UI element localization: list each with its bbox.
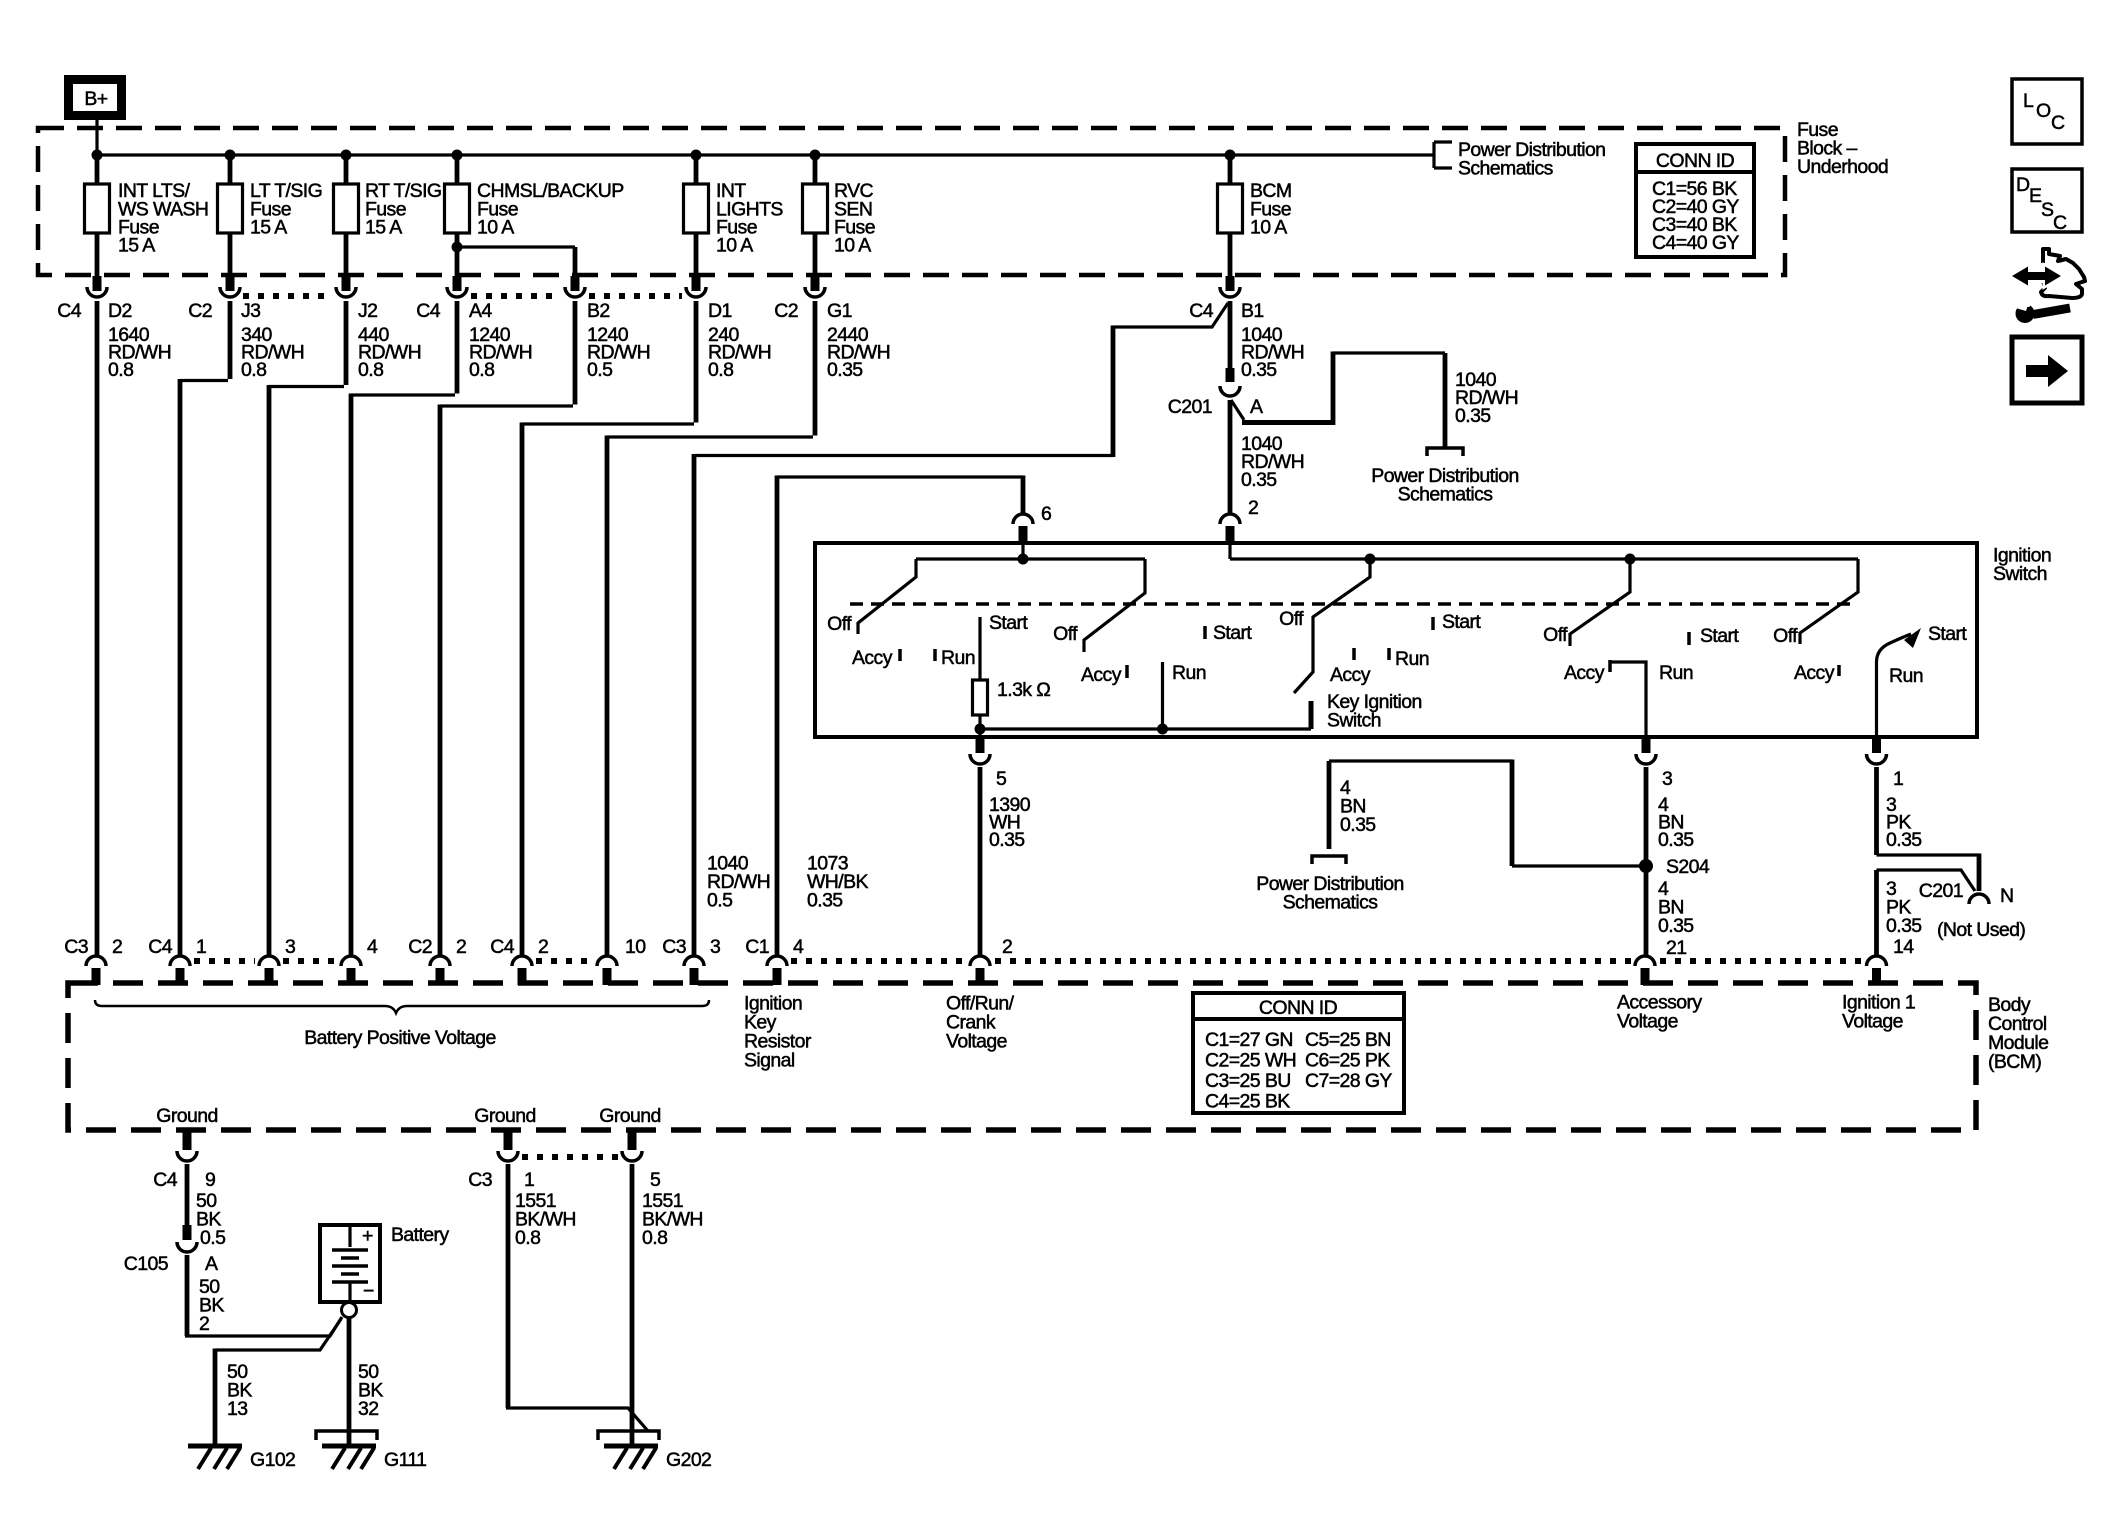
B+ power symbol: [64, 75, 126, 120]
svg-text:Voltage: Voltage: [1842, 1011, 1903, 1033]
node bus-A4: [452, 150, 463, 161]
wire ground 50 BK 0.5: [185, 1164, 190, 1225]
svg-text:0.35: 0.35: [1241, 469, 1277, 491]
wire pin5 to BCM pin2 (1390 WH): [978, 767, 983, 955]
wire G102 50 BK 13: [215, 1319, 341, 1350]
node wiper3-bus: [1365, 554, 1376, 565]
svg-text:C3=25 BU: C3=25 BU: [1205, 1070, 1291, 1092]
switch 3 accy contact: [1352, 648, 1356, 660]
CONN ID table (BCM): [1193, 993, 1404, 1113]
svg-text:0.35: 0.35: [827, 359, 863, 381]
wire S204 branch to power distribution tap: [1329, 761, 1646, 866]
node bus-J2: [341, 150, 352, 161]
icon hand with double arrow and wrench: [2012, 249, 2085, 323]
svg-text:0.8: 0.8: [708, 359, 733, 381]
svg-text:0.35: 0.35: [989, 829, 1025, 851]
label 4 BN 0.35 (tap branch): [1340, 777, 1376, 836]
svg-text:Off: Off: [1543, 624, 1568, 646]
ground G202: [598, 1431, 711, 1471]
svg-text:0.8: 0.8: [108, 359, 133, 381]
svg-text:C201: C201: [1919, 880, 1963, 902]
svg-text:3: 3: [710, 936, 720, 958]
svg-text:C2: C2: [774, 300, 798, 322]
wire label 240 RD/WH 0.8: [708, 324, 771, 381]
wire label 50 BK 2: [199, 1276, 224, 1335]
svg-text:0.35: 0.35: [1455, 405, 1491, 427]
svg-text:J3: J3: [241, 300, 260, 322]
svg-text:10 A: 10 A: [716, 235, 753, 257]
svg-text:Battery Positive Voltage: Battery Positive Voltage: [304, 1027, 496, 1049]
BCM ground pin 5: [622, 1132, 661, 1191]
svg-text:Start: Start: [1700, 625, 1739, 647]
wire label 1040 RD/WH 0.35 (C201 A): [1241, 433, 1304, 491]
wire label 50 BK 0.5: [196, 1190, 226, 1249]
node resistor-bus: [975, 724, 986, 735]
svg-text:CONN ID: CONN ID: [1656, 150, 1735, 172]
wire label 1390 WH 0.35: [989, 794, 1031, 851]
svg-text:21: 21: [1666, 937, 1687, 959]
svg-text:D: D: [2016, 174, 2030, 196]
svg-text:Accy: Accy: [852, 647, 893, 669]
resistor 1.3k: [973, 680, 988, 715]
connector pin 3 (ignition bottom): [1636, 735, 1672, 790]
svg-text:13: 13: [227, 1398, 248, 1420]
svg-text:C4=25 BK: C4=25 BK: [1205, 1091, 1290, 1113]
BCM pin 2 (off/run/crank): [970, 936, 1012, 985]
icon LOC: [2012, 79, 2082, 144]
svg-text:0.8: 0.8: [358, 359, 383, 381]
switch wiper 3 (off, linked to key switch): [1294, 559, 1370, 693]
BCM pin 4 C1: [745, 936, 804, 985]
connector dotted line C4 pins 1-3-4: [194, 958, 337, 964]
wire J2 to BCM pin3: [269, 301, 346, 955]
svg-text:C1=27 GN: C1=27 GN: [1205, 1029, 1293, 1051]
connector pin J2: [336, 276, 377, 322]
connector pin B2: [565, 276, 610, 322]
connector pin 2 (ignition): [1220, 497, 1258, 545]
svg-text:0.8: 0.8: [642, 1227, 667, 1249]
connector C4 pin B1: [1189, 276, 1263, 322]
svg-text:A4: A4: [469, 300, 492, 322]
svg-text:Off: Off: [1773, 625, 1798, 647]
svg-text:2: 2: [112, 936, 122, 958]
switch 1 labels: [827, 612, 1028, 669]
wire label 4 BN 0.35 (upper): [1658, 794, 1694, 851]
svg-text:C3: C3: [468, 1169, 492, 1191]
BCM pin 21: [1635, 937, 1687, 985]
ground G111: [316, 1431, 426, 1471]
svg-text:Underhood: Underhood: [1797, 156, 1888, 178]
node wiper4-bus: [1625, 554, 1636, 565]
wire B1 branch 1040 RD/WH 0.5 to BCM pin3 C3: [694, 303, 1228, 456]
svg-text:0.35: 0.35: [1886, 829, 1922, 851]
svg-text:C2=25 WH: C2=25 WH: [1205, 1050, 1296, 1072]
svg-text:15 A: 15 A: [365, 217, 402, 239]
svg-text:Accy: Accy: [1081, 664, 1122, 686]
connector C4 pin D2: [57, 276, 131, 322]
svg-text:1: 1: [524, 1169, 534, 1191]
svg-text:15 A: 15 A: [118, 235, 155, 257]
brace battery positive voltage: [95, 1000, 709, 1013]
switch 2 start contact: [1203, 626, 1207, 639]
switch 3 run contact: [1387, 648, 1391, 660]
svg-text:Signal: Signal: [744, 1050, 795, 1072]
BCM pin 4: [341, 936, 378, 985]
wire A4 to BCM pin4: [351, 301, 457, 955]
svg-text:B1: B1: [1241, 300, 1264, 322]
wire C201 A to ignition pin2: [1228, 400, 1233, 513]
label power distribution schematics (mid): [1371, 465, 1518, 506]
wire G111 50 BK 32: [347, 1318, 352, 1446]
BCM pin 2 C2: [408, 936, 466, 985]
switch 2 labels: [1053, 622, 1252, 686]
CONN ID table (fuse block): [1636, 144, 1754, 257]
BCM pin 14: [1867, 936, 1915, 985]
svg-text:14: 14: [1893, 936, 1914, 958]
icon arrow box: [2012, 337, 2082, 403]
svg-text:2: 2: [199, 1313, 209, 1335]
svg-text:Voltage: Voltage: [946, 1031, 1007, 1053]
fuse RVC SEN 10A: [803, 155, 875, 276]
svg-text:C1: C1: [745, 936, 769, 958]
dashed gang line: [850, 602, 1855, 606]
connector C201 N (not used): [1919, 880, 2026, 941]
wire CHMSL fuse branch to B2: [457, 245, 575, 248]
BCM pin 1 C4: [148, 936, 206, 985]
switch 5 run wire to start arrow: [1877, 634, 1912, 737]
svg-text:C: C: [2053, 212, 2067, 234]
ignition bottom bus wire: [980, 727, 1311, 730]
switch wiper 4 (off): [1570, 559, 1630, 646]
BCM dashed box: [68, 983, 1976, 1130]
fuse RT T/SIG 15A: [334, 155, 442, 276]
svg-text:10 A: 10 A: [477, 217, 514, 239]
node CHMSL branch: [452, 242, 463, 253]
svg-text:Off: Off: [1279, 608, 1304, 630]
connector C201 pin A: [1168, 368, 1263, 418]
svg-text:1: 1: [1893, 768, 1903, 790]
svg-text:B2: B2: [587, 300, 610, 322]
svg-text:9: 9: [205, 1169, 215, 1191]
svg-text:6: 6: [1041, 503, 1051, 525]
connector pin D1: [686, 276, 732, 322]
switch wiper 1 (off): [858, 559, 916, 634]
svg-text:G1: G1: [827, 300, 852, 322]
svg-text:0.8: 0.8: [515, 1227, 540, 1249]
svg-text:C4: C4: [153, 1169, 177, 1191]
label body control module: [1988, 994, 2048, 1073]
connector dotted line A4-B2-D1: [471, 293, 682, 299]
wire label 1073 WH/BK 0.35: [807, 853, 869, 912]
wire 50 BK 2 to battery negative: [185, 1255, 190, 1336]
svg-text:1.3k Ω: 1.3k Ω: [997, 679, 1050, 701]
label power distribution schematics (bottom): [1256, 873, 1403, 914]
connector pin 1 (ignition bottom): [1867, 735, 1904, 790]
switch 3 labels: [1279, 608, 1481, 686]
switch 1 run contact: [933, 649, 937, 661]
svg-text:0.8: 0.8: [469, 359, 494, 381]
node bus-D2: [92, 150, 103, 161]
label off/run/crank voltage: [946, 993, 1015, 1053]
svg-text:0.5: 0.5: [587, 359, 613, 381]
wire label 340 RD/WH 0.8: [241, 324, 304, 381]
svg-text:G102: G102: [250, 1449, 295, 1471]
switch 5 accy contact: [1837, 665, 1841, 676]
svg-text:Start: Start: [989, 612, 1028, 634]
switch 3 start contact: [1431, 617, 1435, 630]
tap symbol power distribution (bottom): [1312, 856, 1346, 864]
battery: [320, 1224, 449, 1302]
key ignition switch contact: [1309, 701, 1314, 729]
fuse INT LTS/WS WASH 15A: [85, 155, 209, 276]
svg-text:C7=28 GY: C7=28 GY: [1305, 1070, 1392, 1092]
svg-text:Accy: Accy: [1564, 662, 1605, 684]
svg-text:0.35: 0.35: [1658, 915, 1694, 937]
BCM ground pin 1 C3: [468, 1132, 534, 1191]
wire D2 to BCM pin2 C3: [95, 301, 100, 955]
ignition switch box: [815, 543, 1977, 737]
svg-text:C4: C4: [57, 300, 81, 322]
wire label 50 BK 32: [358, 1361, 383, 1420]
wire label 440 RD/WH 0.8: [358, 324, 421, 381]
svg-text:(Not Used): (Not Used): [1937, 919, 2025, 941]
svg-text:Battery: Battery: [391, 1224, 449, 1246]
svg-text:CONN ID: CONN ID: [1259, 997, 1338, 1019]
connector C4 pin A4: [416, 276, 492, 322]
connector C2 pin G1: [774, 276, 852, 322]
svg-text:B+: B+: [84, 88, 107, 110]
switch 1 accy contact: [898, 649, 902, 661]
svg-text:0.5: 0.5: [200, 1227, 226, 1249]
svg-text:2: 2: [1248, 497, 1258, 519]
svg-text:Ground: Ground: [599, 1105, 660, 1127]
connector pin 5 (ignition bottom): [970, 735, 1007, 790]
svg-text:L: L: [2023, 90, 2034, 112]
connector dotted line ground pins: [522, 1154, 618, 1160]
svg-text:Schematics: Schematics: [1458, 158, 1554, 180]
wire B1 down to C201: [1228, 301, 1233, 368]
svg-text:C2: C2: [408, 936, 432, 958]
label fuse block underhood: [1797, 119, 1888, 178]
svg-text:32: 32: [358, 1398, 379, 1420]
switch wiper 2 (off): [1084, 559, 1145, 652]
wire label 1551 BK/WH 0.8 (right): [642, 1190, 703, 1249]
fuse CHMSL/BACKUP 10A: [445, 155, 624, 276]
wire label 1040 RD/WH 0.35 (B1): [1241, 324, 1304, 381]
node bus-J3: [225, 150, 236, 161]
svg-text:C3: C3: [64, 936, 88, 958]
svg-text:C201: C201: [1168, 396, 1212, 418]
node bus-B1: [1225, 150, 1236, 161]
wire C201 A branch to power distribution tap: [1231, 353, 1445, 420]
svg-text:−: −: [363, 1280, 374, 1302]
BCM pin 3 C3: [662, 936, 720, 985]
switch 5 labels: [1773, 623, 1967, 687]
svg-text:3: 3: [1662, 768, 1672, 790]
svg-text:5: 5: [650, 1169, 661, 1191]
svg-text:Run: Run: [1659, 662, 1693, 684]
svg-text:Start: Start: [1442, 611, 1481, 633]
svg-text:C4: C4: [148, 936, 172, 958]
battery negative terminal: [342, 1303, 357, 1318]
connector dotted line J3-J2: [243, 293, 333, 299]
svg-text:10: 10: [625, 936, 646, 958]
connector C2 pin J3: [188, 276, 260, 322]
wire pin2 bus: [1230, 544, 1858, 559]
svg-text:C: C: [2051, 112, 2065, 134]
label 1040 RD/WH 0.35 (tap): [1455, 369, 1518, 427]
svg-text:C4: C4: [416, 300, 440, 322]
label ignition switch: [1993, 545, 2051, 586]
svg-text:S204: S204: [1666, 856, 1710, 878]
wire B+ to bus: [95, 120, 98, 155]
svg-text:15 A: 15 A: [250, 217, 287, 239]
label ignition 1 voltage: [1842, 992, 1915, 1033]
svg-text:Schematics: Schematics: [1283, 892, 1379, 914]
wire G1 to BCM pin10: [607, 301, 815, 955]
connector dotted line C4 pins 2-10: [536, 958, 593, 964]
svg-text:G111: G111: [384, 1449, 426, 1471]
svg-text:Run: Run: [1889, 665, 1923, 687]
svg-text:D1: D1: [708, 300, 732, 322]
wire label 50 BK 13: [227, 1361, 252, 1420]
node bus-D1: [691, 150, 702, 161]
fuse LT T/SIG 15A: [218, 155, 323, 276]
wire label 3 PK 0.35 (lower): [1886, 878, 1922, 937]
tag power distribution schematics (bus continuation): [1434, 139, 1605, 180]
svg-text:D2: D2: [108, 300, 132, 322]
label key ignition switch: [1327, 691, 1422, 732]
svg-text:+: +: [362, 1225, 373, 1247]
svg-text:Accy: Accy: [1794, 662, 1835, 684]
splice S204: [1639, 859, 1653, 873]
svg-text:Accy: Accy: [1330, 664, 1371, 686]
label ignition key resistor signal: [744, 993, 812, 1072]
wire label 1240 RD/WH 0.8: [469, 324, 532, 381]
switch 4 labels: [1543, 624, 1739, 684]
node bus-G1: [810, 150, 821, 161]
connector pin 6 (ignition): [1013, 503, 1051, 545]
svg-text:C4=40 GY: C4=40 GY: [1652, 232, 1739, 254]
svg-text:Off: Off: [1053, 623, 1078, 645]
BCM pin 3: [259, 936, 295, 985]
fuse BCM 10A: [1218, 155, 1292, 276]
svg-text:4: 4: [793, 936, 804, 958]
BCM pin 2 C3: [64, 936, 122, 985]
wire resistor to pin5: [978, 715, 981, 737]
svg-text:10 A: 10 A: [1250, 217, 1287, 239]
svg-text:2: 2: [538, 936, 548, 958]
node run2-bus: [1157, 724, 1168, 735]
switch 5 arrowhead: [1904, 628, 1921, 648]
svg-text:C3: C3: [662, 936, 686, 958]
svg-text:C2: C2: [188, 300, 212, 322]
svg-text:2: 2: [456, 936, 466, 958]
svg-text:2: 2: [1002, 936, 1012, 958]
wire label 4 BN 0.35 (lower): [1658, 878, 1694, 937]
svg-text:Ground: Ground: [474, 1105, 535, 1127]
wire 1551 BK/WH 0.8 (pin1) to G202: [506, 1164, 511, 1408]
svg-text:10 A: 10 A: [834, 235, 871, 257]
wire D1 to BCM pin2 C4: [522, 301, 696, 955]
svg-text:N: N: [2000, 885, 2013, 907]
svg-text:0.35: 0.35: [1886, 915, 1922, 937]
wire 1073 WH/BK BCM pin4 C1 to ignition pin6: [777, 476, 1023, 956]
svg-text:Voltage: Voltage: [1617, 1011, 1678, 1033]
wire label 1040 RD/WH 0.5: [707, 853, 770, 912]
svg-text:Switch: Switch: [1993, 563, 2047, 585]
svg-text:Start: Start: [1213, 622, 1252, 644]
switch 2 accy contact: [1125, 665, 1129, 678]
svg-text:G202: G202: [666, 1449, 711, 1471]
svg-text:1: 1: [196, 936, 206, 958]
bus wire (battery positive feed): [97, 153, 1434, 156]
svg-text:Ground: Ground: [156, 1105, 217, 1127]
wire pin1 to C201 N (3 PK): [1877, 767, 1980, 891]
svg-text:J2: J2: [358, 300, 377, 322]
svg-text:0.35: 0.35: [1340, 814, 1376, 836]
wire accy4 to pin3: [1610, 662, 1646, 737]
svg-text:Run: Run: [941, 647, 975, 669]
svg-text:Switch: Switch: [1327, 710, 1381, 732]
wire pin3 to BCM pin21 (4 BN): [1644, 767, 1649, 955]
svg-text:Run: Run: [1172, 662, 1206, 684]
BCM pin 10: [597, 936, 646, 985]
switch 2 run wire: [1161, 662, 1164, 729]
wire B2 to BCM pin2 C2: [440, 301, 575, 955]
svg-text:Schematics: Schematics: [1398, 484, 1494, 506]
node pin6 bus: [1018, 554, 1029, 565]
svg-text:0.35: 0.35: [1658, 829, 1694, 851]
fuse INT LIGHTS 10A: [684, 155, 784, 276]
wire label 1551 BK/WH 0.8 (left): [515, 1190, 576, 1249]
svg-text:Off: Off: [827, 613, 852, 635]
switch 4 accy contact: [1608, 660, 1612, 672]
label accessory voltage: [1617, 992, 1702, 1033]
wire label 1240 RD/WH 0.5: [587, 324, 650, 381]
wire J3 to BCM pin1 C4: [180, 301, 230, 955]
svg-text:A: A: [205, 1253, 218, 1275]
BCM ground pin 9 C4: [153, 1132, 215, 1191]
connector C105 pin A: [124, 1225, 218, 1275]
icon DESC: [2012, 169, 2082, 234]
wire label 1640 RD/WH 0.8: [108, 324, 171, 381]
svg-text:5: 5: [996, 768, 1007, 790]
svg-text:Start: Start: [1928, 623, 1967, 645]
wire label 2440 RD/WH 0.35: [827, 324, 890, 381]
svg-text:0.35: 0.35: [1241, 359, 1277, 381]
switch 4 start contact: [1687, 632, 1691, 645]
wire pin6 bus: [916, 544, 1145, 559]
svg-text:C5=25 BN: C5=25 BN: [1305, 1029, 1391, 1051]
svg-text:0.35: 0.35: [807, 890, 843, 912]
wire label 3 PK 0.35 (upper): [1886, 794, 1922, 851]
BCM pin 2 C4: [490, 936, 548, 985]
svg-text:4: 4: [367, 936, 378, 958]
svg-text:Run: Run: [1395, 648, 1429, 670]
switch 1 start contact wire: [978, 617, 981, 680]
ground G102: [188, 1446, 295, 1471]
svg-text:C4: C4: [1189, 300, 1213, 322]
svg-text:C4: C4: [490, 936, 514, 958]
svg-text:C6=25 PK: C6=25 PK: [1305, 1050, 1390, 1072]
connector dotted line C1 pins 4-2-21-14: [791, 958, 1862, 964]
svg-text:0.5: 0.5: [707, 890, 733, 912]
fuse block dashed box: [38, 128, 1785, 275]
svg-text:(BCM): (BCM): [1988, 1051, 2041, 1073]
switch wiper 5 (off): [1800, 559, 1858, 644]
svg-text:O: O: [2036, 100, 2051, 122]
